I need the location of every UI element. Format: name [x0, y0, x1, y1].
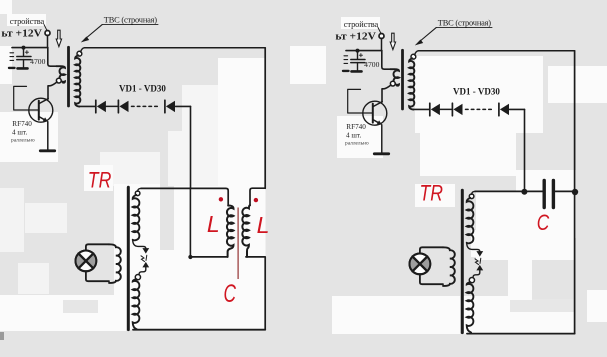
wires to transistor base — [14, 86, 39, 110]
capacitor C plates — [543, 181, 546, 208]
svg-text:TR: TR — [88, 167, 112, 192]
spark gap down arrow — [142, 248, 149, 254]
wire top horizontal — [12, 47, 48, 49]
wire L1 bottom — [190, 256, 227, 258]
wire outer top to L2 — [250, 188, 265, 205]
wire winding to spark gap — [133, 240, 146, 249]
lamp X — [79, 254, 94, 269]
flyback secondary terminal circle — [77, 51, 82, 56]
capacitor 4700 — [23, 48, 25, 56]
wire emitter down — [47, 122, 49, 150]
lamp gray quadrants — [75, 254, 85, 269]
junction node — [22, 46, 26, 50]
transistor emitter with arrow — [39, 117, 46, 121]
lamp circle outline again — [76, 251, 97, 272]
wire primary to collector — [48, 82, 57, 99]
junction node — [188, 255, 192, 259]
TR secondary top terminal circle — [135, 191, 140, 196]
wire rectifier output down — [190, 106, 192, 188]
svg-text:4700: 4700 — [30, 58, 46, 66]
wire TR top to capacitor — [475, 190, 542, 192]
wire rectifier down extension — [189, 188, 191, 257]
svg-text:4 шт.: 4 шт. — [12, 129, 28, 137]
svg-text:L: L — [257, 212, 270, 238]
wire L2 bottom to outer — [246, 257, 265, 330]
svg-text:RF740: RF740 — [12, 120, 32, 128]
svg-text:ьт +12V: ьт +12V — [1, 29, 42, 40]
wire top HV right — [419, 50, 575, 52]
inductor L1 — [227, 205, 234, 256]
diode VD30 — [164, 100, 166, 113]
flyback primary winding — [57, 66, 66, 82]
wire secondary bottom to diodes — [79, 105, 95, 107]
svg-text:C: C — [537, 210, 550, 235]
spark symbol — [141, 256, 145, 262]
arrow from ТВС label to core — [85, 25, 102, 39]
white patches right — [415, 56, 543, 133]
white patches left — [218, 58, 266, 330]
wire bottom return — [133, 329, 265, 331]
svg-text:ТВС (строчная): ТВС (строчная) — [104, 15, 157, 24]
right circuit instance — [335, 18, 524, 332]
svg-text:TR: TR — [420, 181, 444, 206]
junction node right of C — [572, 189, 578, 195]
svg-text:VD1 - VD30: VD1 - VD30 — [119, 84, 166, 94]
wire bottom return right — [467, 333, 575, 335]
transistor Q1 circle — [29, 98, 53, 122]
red winding dot L2 — [254, 198, 258, 202]
dashed wire — [132, 105, 159, 107]
wire outer right upper — [264, 48, 266, 189]
transistor base bar — [38, 101, 40, 120]
diode VD1 — [95, 100, 97, 113]
primary terminal circle — [56, 78, 61, 83]
transistor collector — [39, 99, 48, 104]
wire outer right full — [574, 51, 576, 334]
TR secondary top stub — [138, 188, 141, 191]
lamp loop wires — [86, 244, 109, 281]
svg-text:раллельно: раллельно — [11, 137, 35, 143]
wire diodes to corner — [176, 105, 191, 107]
junction node left of C — [521, 189, 527, 195]
cut-off component dashes at left edge — [10, 53, 14, 61]
wire TR top to L1 — [141, 188, 228, 205]
TR core — [127, 187, 130, 329]
wire terminal down — [47, 35, 49, 47]
flyback core — [67, 47, 70, 106]
wire +12V rail down to primary — [48, 48, 57, 67]
TR secondary lower terminal circle — [135, 275, 140, 280]
wire — [106, 105, 118, 107]
red leader line C — [237, 208, 239, 280]
hollow arrow — [56, 30, 61, 46]
TR secondary winding upper — [133, 195, 140, 240]
red winding dot L1 — [219, 197, 223, 201]
spark gap up arrow — [142, 262, 149, 268]
svg-text:стройства: стройства — [10, 17, 45, 26]
ground — [40, 149, 54, 152]
diode VD2 — [117, 100, 119, 113]
wire spark gap to lower winding — [139, 267, 146, 274]
inductor L2 — [242, 205, 250, 257]
lamp circle — [76, 251, 97, 272]
wire top HV — [85, 47, 266, 49]
terminal +12V circle — [45, 31, 50, 36]
TR primary winding — [109, 244, 121, 283]
wire capacitor to outer — [555, 190, 574, 192]
svg-text:C: C — [224, 280, 237, 308]
svg-text:L: L — [207, 211, 220, 237]
TR secondary winding lower — [133, 279, 140, 329]
leader line to +12V terminal — [44, 25, 47, 31]
wire secondary top stub — [81, 48, 85, 52]
underline of ТВС label — [102, 24, 158, 26]
flyback secondary winding — [75, 55, 80, 106]
